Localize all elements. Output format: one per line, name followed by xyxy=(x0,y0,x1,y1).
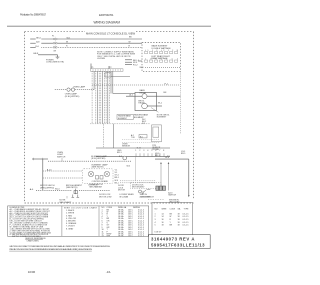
wire row3 xyxy=(43,177,83,179)
svg-text:TYPE: TYPE xyxy=(184,208,190,210)
wire W-6 xyxy=(140,67,181,69)
oven lamp bulbs xyxy=(67,88,75,91)
svg-text:MAIN CONSOLE LT CONSOLE DL VIE: MAIN CONSOLE LT CONSOLE DL VIEW xyxy=(86,31,135,35)
connector P1 separation line xyxy=(54,37,56,49)
cooktop header line xyxy=(96,147,170,149)
svg-text:PRECAUCION: DESCONECTE LA CORR: PRECAUCION: DESCONECTE LA CORRIENTE ANTE… xyxy=(9,248,92,251)
svg-text:W: W xyxy=(170,216,172,218)
control board terminal strip xyxy=(91,67,124,71)
svg-text:1: 1 xyxy=(155,213,156,215)
legend table frame xyxy=(8,206,149,236)
page background xyxy=(0,0,218,285)
sensor dashed links xyxy=(122,140,160,143)
svg-text:16: 16 xyxy=(162,219,164,221)
svg-text:-16-: -16- xyxy=(106,270,111,274)
svg-text:0.5-1.5: 0.5-1.5 xyxy=(183,222,189,224)
lock connector cells xyxy=(156,186,166,190)
svg-text:CHART (SEE): CHART (SEE) xyxy=(27,239,39,242)
wire into element block xyxy=(138,60,142,62)
TOD labels xyxy=(131,134,136,139)
svg-text:BR-5: BR-5 xyxy=(181,153,185,155)
svg-text:0.5-1.5: 0.5-1.5 xyxy=(183,213,189,215)
svg-text:L1-L2 240V: L1-L2 240V xyxy=(97,58,106,60)
svg-text:MOTOR & SW: MOTOR & SW xyxy=(99,196,112,198)
legend column 2 text xyxy=(64,206,98,230)
wire W-1 out xyxy=(147,102,162,106)
inner dashed enclosure (surface elements) xyxy=(142,43,181,72)
svg-text:0.5-1.5: 0.5-1.5 xyxy=(183,225,189,227)
svg-text:W: W xyxy=(129,42,131,44)
svg-text:R L2: R L2 xyxy=(133,65,138,67)
relay K2 coil xyxy=(142,103,148,109)
svg-text:GR-8: GR-8 xyxy=(33,53,39,55)
riser to strip xyxy=(90,64,92,69)
right bus dashed vertical xyxy=(179,71,181,134)
latch contacts xyxy=(96,176,104,180)
arrow riser V-1 xyxy=(168,162,170,191)
svg-text:0.5-1.5: 0.5-1.5 xyxy=(183,216,189,218)
note see chart xyxy=(59,196,72,204)
svg-text:B-5: B-5 xyxy=(140,136,143,138)
svg-text:SEE CHART: SEE CHART xyxy=(59,201,72,204)
left drop wire xyxy=(42,159,44,190)
svg-text:WIRE: WIRE xyxy=(162,208,168,210)
svg-text:1 2 3 4 5 6 7 8: 1 2 3 4 5 6 7 8 xyxy=(135,150,165,152)
terminal row 2 xyxy=(145,60,178,62)
notes text block xyxy=(97,50,136,60)
note leader diagonal xyxy=(151,108,159,113)
svg-text:P1: P1 xyxy=(52,35,54,37)
oven lamp wire xyxy=(55,89,94,91)
relay K1 coil xyxy=(142,94,147,99)
TOD contact box xyxy=(139,135,147,139)
svg-text:W: W xyxy=(66,42,68,44)
wire N (middle power line) xyxy=(30,41,142,44)
latch motor M1 xyxy=(88,171,94,177)
svg-text:CORD (SEE NOTE): CORD (SEE NOTE) xyxy=(46,62,64,64)
oven sensor nested box xyxy=(152,125,162,142)
svg-text:CONTROL BOARD: CONTROL BOARD xyxy=(92,180,109,183)
svg-text:OVEN LAMP: OVEN LAMP xyxy=(73,85,86,88)
door lock dashed box xyxy=(131,183,162,189)
svg-text:Publication No. 5995476917: Publication No. 5995476917 xyxy=(20,12,47,16)
relay box K1/K2 xyxy=(135,93,157,111)
svg-text:10/06: 10/06 xyxy=(28,270,36,274)
svg-text:105 C: 105 C xyxy=(128,236,134,238)
svg-text:5: 5 xyxy=(155,225,156,227)
junction wire top left xyxy=(32,158,48,160)
svg-text:SWITCH: SWITCH xyxy=(57,157,66,159)
riser to strip 2 xyxy=(108,66,110,69)
latch fuse component xyxy=(74,189,78,195)
svg-text:2: 2 xyxy=(155,216,156,218)
svg-text:4: 4 xyxy=(155,222,156,224)
svg-text:MOTOR ASSY: MOTOR ASSY xyxy=(132,186,145,189)
svg-text:BK-1: BK-1 xyxy=(115,182,119,184)
right bus vertical xyxy=(188,159,190,196)
svg-text:(SEE NOTE): (SEE NOTE) xyxy=(92,167,104,169)
outer dashed enclosure (main console) xyxy=(25,32,194,203)
svg-text:18 GA: 18 GA xyxy=(118,235,124,238)
part number box xyxy=(148,235,210,249)
ground symbol xyxy=(56,57,60,59)
svg-text:MOTOR: MOTOR xyxy=(118,190,126,192)
wire bus below control strip xyxy=(92,71,113,123)
cooktop strip line xyxy=(96,156,170,158)
legend divider 2 xyxy=(98,206,100,236)
latch assembly dashed box xyxy=(82,169,113,184)
sensor probe labels xyxy=(152,145,161,151)
legend column 3 table xyxy=(102,206,144,238)
svg-text:(SEE NOTE): (SEE NOTE) xyxy=(140,196,151,198)
svg-text:SENSOR: SENSOR xyxy=(122,145,131,147)
right small table xyxy=(152,203,193,235)
svg-text:8. GRAY: 8. GRAY xyxy=(66,227,74,230)
svg-text:6. ORANGE: 6. ORANGE xyxy=(66,222,77,225)
latch motor M2 xyxy=(104,171,110,177)
wire label column right of latch box xyxy=(115,169,119,184)
svg-text:TOD: TOD xyxy=(131,137,136,139)
svg-text:(IF EQUIPPED): (IF EQUIPPED) xyxy=(40,187,54,189)
wire A-1 xyxy=(126,94,180,97)
svg-text:14: 14 xyxy=(162,216,164,218)
terminal row 1 xyxy=(145,51,178,53)
svg-text:18: 18 xyxy=(162,225,164,227)
svg-text:(IF EQUIPPED): (IF EQUIPPED) xyxy=(91,158,105,160)
svg-text:18: 18 xyxy=(178,219,180,221)
wire P-1 (dashed horizontal) xyxy=(92,83,180,85)
cooktop connector ticks xyxy=(136,153,164,156)
svg-text:16: 16 xyxy=(162,222,164,224)
oven light label xyxy=(57,152,66,161)
svg-text:13: 13 xyxy=(102,236,104,238)
svg-text:3: 3 xyxy=(155,219,156,221)
wire GND xyxy=(33,50,58,57)
wire bake feed xyxy=(113,92,167,94)
relay box on bus xyxy=(105,73,111,77)
wire label stack W-2 xyxy=(142,119,146,125)
connector J2 pins xyxy=(125,60,140,67)
lock switch cluster xyxy=(139,189,151,194)
riser wires to cooktop xyxy=(103,124,113,148)
svg-text:SWITCH: SWITCH xyxy=(168,195,176,197)
svg-text:316449073 REV A: 316449073 REV A xyxy=(151,237,195,242)
bus collector dashed xyxy=(90,123,150,125)
svg-text:CAUTION: DISCONNECT POWER BEFO: CAUTION: DISCONNECT POWER BEFORE SERVICI… xyxy=(9,245,110,248)
wire A-10 xyxy=(43,168,83,171)
svg-text:1. BLACK: 1. BLACK xyxy=(66,209,75,212)
svg-text:18: 18 xyxy=(178,225,180,227)
svg-text:(SEE NOTE): (SEE NOTE) xyxy=(66,187,78,189)
svg-text:WIRE COLOUR CODE CHART: WIRE COLOUR CODE CHART xyxy=(64,206,98,209)
svg-text:18: 18 xyxy=(178,213,180,215)
header rule xyxy=(7,25,211,27)
svg-text:ELEMENT: ELEMENT xyxy=(118,118,128,120)
svg-text:CODE: CODE xyxy=(170,208,176,210)
short dashed drop xyxy=(71,185,73,189)
svg-text:W/R: W/R xyxy=(107,236,111,238)
wire L1 (top power line) xyxy=(30,36,142,39)
cooktop connector labels xyxy=(117,150,165,154)
lamp leader vertical xyxy=(135,157,137,181)
svg-text:14: 14 xyxy=(162,213,164,215)
svg-text:(IF EQUIPPED): (IF EQUIPPED) xyxy=(65,96,80,98)
svg-text:CONTROL: CONTROL xyxy=(88,185,99,187)
lock circuit wire xyxy=(36,189,110,191)
contact marks below xyxy=(72,195,80,198)
connector P1 plug contacts on power lines xyxy=(53,38,57,48)
sensor chart caption xyxy=(25,237,46,242)
wire from bus relay xyxy=(111,76,130,78)
schematic bottom dashes xyxy=(148,199,164,201)
light circuit wire xyxy=(48,160,132,162)
svg-text:IN CLEAN: IN CLEAN xyxy=(119,195,128,198)
svg-text:5995417F633LLE11/13: 5995417F633LLE11/13 xyxy=(151,243,205,248)
hidden bake element box xyxy=(117,115,134,120)
svg-text:0.5-1.5: 0.5-1.5 xyxy=(183,219,189,221)
svg-text:ELEMENT: ELEMENT xyxy=(157,117,167,119)
cooktop right feed line xyxy=(155,158,189,160)
legend divider 1 xyxy=(61,206,63,236)
svg-text:18: 18 xyxy=(178,216,180,218)
dashed feeds to door lock xyxy=(120,181,156,183)
lamp symbol on cooktop line xyxy=(119,156,127,160)
legend column 1 text xyxy=(10,207,52,238)
svg-text:WIRING DIAGRAM: WIRING DIAGRAM xyxy=(94,21,121,25)
arrow riser Y-1 xyxy=(160,162,162,187)
wire L2 (bottom power line, dotted) xyxy=(30,46,142,48)
svg-text:EF6T01P01: EF6T01P01 xyxy=(99,13,114,17)
svg-text:0.5-1.5: 0.5-1.5 xyxy=(138,236,144,238)
caution underline xyxy=(9,250,92,252)
svg-text:18: 18 xyxy=(178,222,180,224)
svg-text:6 18 GY: 6 18 GY xyxy=(155,232,163,234)
